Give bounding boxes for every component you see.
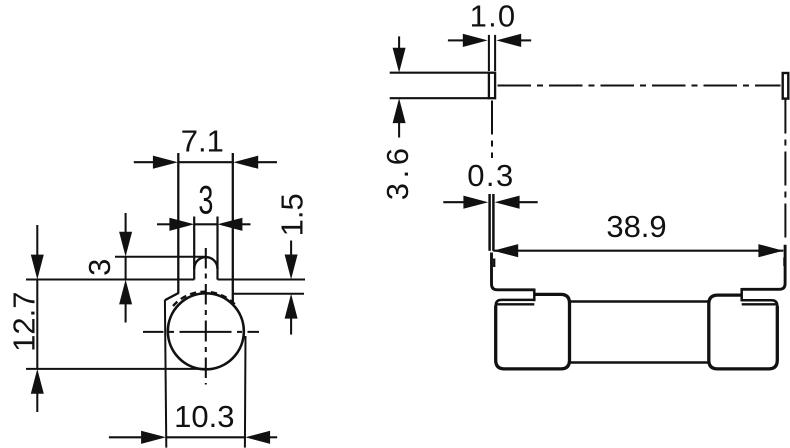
svg-text:12.7: 12.7 <box>7 292 42 352</box>
dimension 3.6 <box>398 36 400 137</box>
centerline dash fragment <box>493 259 495 268</box>
dimension 10.3 <box>109 436 277 438</box>
dome side left (also 3 extension line) <box>193 217 195 280</box>
left end cap outline <box>496 294 570 369</box>
dimension 12.7 <box>36 225 38 412</box>
fuse top tangent ext line (1.5 lower ext) <box>233 293 304 295</box>
shoulder line right (ext for 1.5) <box>218 279 306 281</box>
horizontal centerline to far tab <box>498 85 781 87</box>
svg-text:0.3: 0.3 <box>467 158 515 193</box>
shoulder line left (ext for 12.7 and 3) <box>26 279 194 281</box>
svg-text:7.1: 7.1 <box>181 124 224 159</box>
far clip tab end-on <box>783 73 789 99</box>
clip outer wall left (also 7.1 extension line) <box>177 153 179 294</box>
projection centerline below near tab <box>491 101 493 159</box>
centerline dash fragment right <box>783 258 785 267</box>
svg-text:3: 3 <box>82 259 117 276</box>
left tab bottom edge curling into cap left edge <box>496 300 535 307</box>
right tab left edge <box>740 288 743 301</box>
dimension 1.0 <box>448 39 531 41</box>
projection centerline below far tab <box>784 100 786 244</box>
svg-text:1.0: 1.0 <box>470 0 517 33</box>
right end cap outline <box>709 295 778 369</box>
circle bottom ext line (12.7 lower ext) <box>26 368 206 370</box>
0.3 extension lines / clip leg upper <box>488 194 491 251</box>
1.0 extension lines <box>488 35 490 71</box>
horizontal centerline <box>143 331 259 333</box>
svg-text:3.6: 3.6 <box>380 143 415 200</box>
left tab right edge <box>533 289 536 302</box>
bent tab end-on <box>489 73 495 99</box>
right tab top edge and clip leg <box>742 245 785 290</box>
clip outer wall right (also 7.1 extension line) <box>232 153 234 304</box>
left cap edge under tab <box>497 303 535 305</box>
dimension 38.9 <box>493 250 783 252</box>
fuse body circle <box>168 293 244 369</box>
right tab bottom edge curling into cap right edge <box>742 300 778 307</box>
dome side right (also 3 extension line) <box>216 217 218 280</box>
dome top ext line (upper ext for 3 left dim) <box>115 256 206 258</box>
dimension 7.1 <box>134 161 277 163</box>
dimension 3 (left, dome height) <box>125 213 127 323</box>
fuse body top edge <box>570 300 709 302</box>
10.3 extension line right <box>244 336 247 448</box>
right cap edge under tab <box>742 303 777 305</box>
svg-text:38.9: 38.9 <box>606 209 666 244</box>
svg-text:1.5: 1.5 <box>274 193 309 236</box>
clip left bottom flare <box>165 293 179 300</box>
strip bottom edge <box>390 97 489 99</box>
strip top edge <box>390 72 489 74</box>
vertical centerline <box>205 248 207 385</box>
svg-text:10.3: 10.3 <box>174 399 234 434</box>
hidden fuse max-diameter dashed arc <box>173 292 236 306</box>
10.3 extension line left <box>165 300 166 448</box>
dimension 3 (top, dome width) <box>157 223 251 225</box>
svg-text:3: 3 <box>198 178 213 222</box>
left clip leg and tab top <box>492 253 535 290</box>
dome arc <box>194 257 217 269</box>
fuse body bottom edge <box>570 361 709 363</box>
dimension 0.3 <box>443 201 537 203</box>
dimension 1.5 <box>290 241 292 335</box>
